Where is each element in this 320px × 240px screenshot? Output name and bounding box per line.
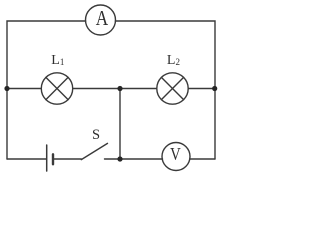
wire middle-left segment [7,88,41,90]
svg-text:L1: L1 [51,53,64,68]
voltmeter V [162,143,190,171]
svg-text:L2: L2 [167,53,180,68]
lamp L1 [41,73,72,104]
wire battery to switch [53,158,81,160]
battery [47,145,53,171]
node bottom junction [117,156,122,161]
node center junction [117,86,122,91]
wire switch to voltmeter [120,158,163,160]
wire between lamps [73,88,157,90]
switch S [81,143,120,159]
wire left vertical lower segment [6,89,8,160]
wire top-right segment [115,21,215,89]
svg-text:V: V [170,144,181,164]
wire middle-right segment [188,88,215,90]
wire voltmeter to right corner [190,158,215,160]
node left junction [4,86,9,91]
wire top-left segment [7,21,86,89]
svg-text:A: A [96,6,109,30]
wire center vertical (junction to bottom) [119,89,121,160]
wire bottom-left segment [7,158,46,160]
ammeter A [86,5,116,35]
node right junction [212,86,217,91]
lamp L2 [157,73,188,104]
wire right vertical lower segment [214,89,216,160]
svg-text:S: S [92,127,100,143]
